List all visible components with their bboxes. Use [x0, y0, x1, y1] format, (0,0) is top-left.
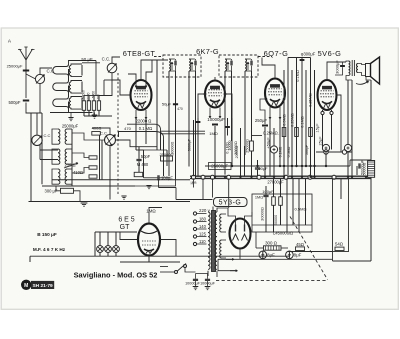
capacitor 90uF: [255, 168, 260, 169]
svg-text:0.1MΩ: 0.1MΩ: [279, 146, 283, 157]
tube V5 grids: [142, 240, 156, 242]
svg-text:180: 180: [199, 217, 207, 222]
svg-text:50 μF: 50 μF: [81, 57, 93, 62]
wire coupling vertical 8: [314, 70, 316, 176]
bus connector sockets: [192, 175, 196, 179]
wire stub y135: [252, 135, 262, 137]
wire 6Q7 pins down: [269, 107, 271, 119]
svg-text:GT: GT: [120, 224, 130, 231]
wire socket 203 down: [202, 178, 204, 199]
svg-text:410Ω: 410Ω: [73, 170, 83, 175]
wire input node: [26, 74, 36, 79]
dashed gang coupling line: [117, 73, 119, 196]
tube V2 6K7-G plate: [211, 86, 220, 89]
svg-text:22000 Ω: 22000 Ω: [136, 119, 152, 124]
svg-text:5Y3-G: 5Y3-G: [219, 200, 242, 207]
wire 6K7 top cap to IF2: [214, 77, 216, 81]
svg-text:C.C.: C.C.: [102, 57, 111, 62]
svg-text:90μF: 90μF: [258, 166, 268, 171]
wire coupling vertical 7: [310, 58, 312, 177]
svg-text:25μF: 25μF: [319, 136, 323, 146]
mains tap 125V: [193, 235, 196, 238]
wire 5Y3 anode top left: [228, 208, 236, 225]
wire osc gang taps: [39, 145, 41, 160]
svg-text:25000μF: 25000μF: [211, 163, 228, 168]
resistor bank R2: [87, 101, 90, 111]
IF2 unit 2 wires: [245, 58, 251, 60]
electrolytic 8uF first: [259, 251, 267, 259]
wire 6TE8 pins down: [135, 110, 137, 119]
capacitor 50uF on AVC feed: [173, 104, 178, 105]
svg-text:8μF: 8μF: [267, 252, 275, 257]
wire 6K7 column down: [197, 118, 199, 176]
svg-text:25000μF: 25000μF: [62, 124, 79, 129]
ground RF bank left: [68, 118, 73, 121]
wire resistor bank bottom rail: [84, 115, 112, 117]
dashed screen lead right of IF2: [258, 56, 272, 58]
svg-text:54Ω: 54Ω: [335, 242, 343, 247]
svg-text:50μF: 50μF: [162, 101, 172, 106]
resistor 0.5M box: [282, 128, 286, 137]
wire bus to 5Y3 label: [212, 178, 214, 197]
capacitor 100uF at x158: [158, 175, 159, 180]
tube V4 5V6-G heater: [324, 103, 331, 108]
wire lamps feed: [94, 232, 96, 256]
wire switch verticals: [99, 135, 101, 180]
ground at y156 small: [121, 196, 126, 199]
wire HT rail from choke: [288, 251, 332, 253]
wire x146 to tube: [145, 119, 147, 144]
6K7 grid side terminals: [204, 93, 207, 96]
resistor 45 ohm: [296, 247, 305, 251]
tube V6 plates: [235, 225, 237, 232]
ground mains left: [195, 281, 197, 286]
wire IF2 verticals down: [224, 71, 226, 175]
osc coil pair 1 leads: [52, 129, 58, 144]
RF transformer 2 primary loop: [53, 83, 66, 91]
6Q7 diode terminals: [265, 98, 268, 101]
wire band switch verticals: [95, 61, 97, 96]
wire socket 193 down: [193, 178, 195, 187]
wire RF bank feed top: [69, 61, 97, 65]
label 5Y3-G outline: [214, 198, 248, 207]
svg-text:30000Ω: 30000Ω: [171, 141, 175, 154]
wire left second vertical: [41, 113, 43, 184]
5V6 cathode pins with sockets: [322, 110, 324, 150]
capacitor 250uF: [262, 125, 268, 126]
wire 6Q7 top cap: [262, 58, 275, 79]
wire osc coils common: [71, 129, 73, 186]
wire left edge long vertical: [30, 113, 32, 202]
tube V4 5V6-G plate: [323, 86, 332, 89]
resistor bank R4: [97, 101, 100, 111]
RF transformer 2 secondary lead: [81, 82, 83, 93]
wire coupling vertical 5: [301, 58, 303, 177]
ground mains right: [207, 281, 209, 286]
wire lamp rail bottom: [99, 252, 101, 256]
svg-text:SH 21-79: SH 21-79: [32, 283, 53, 289]
wire transformer primary leads: [346, 61, 349, 62]
svg-text:500μF: 500μF: [305, 144, 309, 155]
wire 5V6 plate top to output transformer: [327, 62, 346, 80]
osc coil pair 2 leads: [52, 149, 58, 164]
capacitor 100uF filter: [263, 195, 268, 196]
wire coupling vertical 6: [305, 70, 307, 166]
tube V5 cathode: [144, 249, 154, 251]
svg-text:300 Ω: 300 Ω: [265, 240, 278, 245]
wire 5Y3 anode top right: [245, 212, 253, 225]
electrolytic far right: [344, 144, 351, 151]
tube V1 6TE8-GT grids: [135, 90, 148, 92]
junction dots on AVC: [231, 165, 233, 167]
resistor bank R3: [92, 101, 95, 111]
tube V5 target: [141, 231, 157, 234]
electrolytic 8uF second: [286, 251, 294, 259]
wire horizontal y186: [42, 185, 135, 187]
wire trimmer padder top: [92, 128, 110, 135]
power transformer HV secondary: [215, 212, 217, 269]
resistor filter vertical 2: [279, 197, 283, 206]
wire filter bottom rail: [252, 224, 312, 226]
logo emblem circle: [21, 280, 31, 290]
wire trimmer RF bottom: [99, 73, 112, 96]
svg-text:8μF: 8μF: [294, 252, 302, 257]
wire x357 vertical lower: [356, 166, 358, 175]
osc coil pair 3 leads: [52, 169, 58, 184]
svg-text:50000: 50000: [81, 90, 85, 99]
wire under 6TE8 curves to bus: [155, 124, 161, 131]
IF2 unit 1 wires: [225, 58, 231, 60]
IF2 winding 2: [245, 59, 247, 71]
wire det stair v: [175, 188, 177, 200]
svg-text:30000Ω: 30000Ω: [261, 207, 265, 221]
wire double line under tubes 2: [161, 133, 205, 135]
resistor 25000 horizontal box: [161, 156, 173, 161]
wire RF bank inter-row links: [68, 69, 70, 81]
trimmer C.C. oscillator gang: [32, 135, 42, 145]
wire double line under tubes 1: [161, 130, 205, 132]
wire 6E5 top: [149, 208, 162, 224]
dashed chassis bottom: [216, 280, 328, 282]
wire choke leads: [256, 247, 264, 249]
output transformer primary: [349, 61, 350, 76]
wire RF bank feed 2: [82, 62, 100, 64]
IF2 trim capacitor 2: [251, 61, 252, 66]
svg-text:50000: 50000: [274, 215, 278, 225]
wire AVC line: [205, 165, 350, 167]
wire vertical x118 under 6TE8: [118, 132, 120, 138]
svg-text:5000pF: 5000pF: [188, 138, 192, 151]
wire 50pF leads: [138, 147, 140, 159]
wire coupling vertical 4: [296, 58, 298, 167]
dashed screen lead left of IF1: [154, 56, 163, 58]
resistor 54 ohm box: [335, 247, 344, 250]
capacitor 500pF: [23, 100, 29, 101]
wire mains left stub: [160, 266, 168, 268]
svg-text:0.1MΩ: 0.1MΩ: [301, 116, 305, 128]
label 400 ohm osc: [92, 132, 101, 136]
wire osc rows to switch: [72, 153, 89, 158]
mains tap 180V: [193, 220, 196, 223]
tube V6 5Y3-G envelope: [230, 219, 251, 249]
IF transformer 1 shield box: [163, 55, 201, 77]
svg-text:3000μF: 3000μF: [335, 60, 340, 74]
tube V3 6Q7-G plate: [271, 85, 280, 88]
ground RF bank right: [92, 115, 98, 118]
wire under 6TE8 line2: [119, 131, 156, 133]
mains switch: [175, 271, 178, 274]
IF1 winding 1: [169, 59, 171, 71]
wire secondary to speaker: [358, 64, 366, 65]
tube V1 6TE8-GT plate: [137, 86, 146, 89]
wire lamp rail top: [95, 231, 137, 233]
dashed chassis diagonal: [290, 217, 328, 280]
wire 6E5 bottom: [148, 256, 150, 262]
capacitor mains filter left: [193, 279, 198, 280]
resistor 0.1M box: [309, 128, 313, 137]
capacitor mains filter right: [205, 279, 210, 280]
wire heater connector line: [316, 151, 352, 153]
svg-text:10000μF: 10000μF: [207, 117, 225, 122]
trimmer padder: [105, 135, 116, 146]
heater connector socket 1: [324, 150, 328, 154]
svg-text:0.5MΩ: 0.5MΩ: [287, 146, 291, 157]
svg-text:6TE8-GT: 6TE8-GT: [123, 49, 156, 58]
wire LV leads: [222, 213, 227, 215]
RF transformer 2 primary hooks: [66, 81, 69, 94]
wire detector verticals: [160, 131, 162, 150]
junction dots on bus: [214, 176, 216, 178]
wire secondary top to 5Y3: [217, 208, 228, 212]
wire antenna down: [25, 72, 27, 98]
svg-text:0.25MΩ: 0.25MΩ: [291, 113, 295, 127]
mains tap 140V: [193, 227, 196, 230]
wire right edge links: [332, 252, 334, 262]
wire right block inner vertical: [340, 179, 342, 199]
wire right vertical x371 lower: [370, 177, 372, 261]
IF2 trim capacitor 1: [231, 61, 232, 66]
svg-text:125: 125: [199, 232, 207, 237]
tube V3 6Q7-G grids: [269, 88, 282, 90]
wire filter inner verticals: [265, 197, 267, 232]
wire coupling top rail: [288, 57, 311, 59]
capacitor coupling: [300, 60, 305, 61]
wire switch leads: [160, 271, 175, 273]
RF transformer 2 secondary winding: [69, 82, 71, 92]
electrolytic 50uF mid: [270, 146, 277, 153]
capacitor 50pF osc: [136, 159, 141, 160]
speaker field arrow: [356, 81, 369, 84]
wire primary ends: [207, 271, 209, 276]
mains tap 110V: [193, 242, 196, 245]
tube V3 6Q7-G envelope: [265, 79, 285, 108]
svg-text:C.C: C.C: [44, 133, 51, 138]
svg-text:45Ω: 45Ω: [296, 242, 304, 247]
RF transformer 1 primary loop: [53, 67, 66, 75]
svg-text:400Ω: 400Ω: [92, 125, 102, 130]
wire coupling vertical 2: [287, 58, 289, 176]
dial lamp 3: [115, 232, 117, 246]
trimmer C.C. antenna: [35, 74, 44, 83]
svg-text:250μF: 250μF: [255, 118, 268, 123]
wire cap under 6K7: [214, 126, 216, 176]
power transformer LV windings: [220, 214, 222, 232]
wire secondary center tap: [216, 271, 218, 277]
wire mains filter: [195, 274, 197, 279]
switch contact box 3: [89, 175, 97, 178]
svg-text:50pF: 50pF: [141, 154, 151, 159]
tube V3 6Q7-G heater: [272, 101, 279, 106]
electrolytic 25uF right: [322, 144, 329, 151]
svg-text:100μF: 100μF: [262, 189, 274, 194]
antenna: [25, 60, 27, 74]
RF transformer 1 primary hooks: [66, 64, 69, 77]
resistor 300uF box: [61, 188, 74, 193]
tube V4 5V6-G envelope: [318, 80, 337, 110]
wire 6E5 grid left: [120, 232, 138, 240]
osc coil pair 3 left winding: [58, 169, 60, 184]
svg-text:10000: 10000: [86, 92, 90, 101]
svg-text:6 E 5: 6 E 5: [118, 217, 134, 224]
wire heater lead y270.7: [218, 270, 238, 272]
wire right vertical x371 upper: [370, 80, 372, 160]
svg-text:27000μF: 27000μF: [267, 179, 284, 184]
tube V4 5V6-G grids: [321, 90, 334, 92]
svg-text:400: 400: [96, 94, 100, 100]
wire 6TE8 grid left to coils: [112, 80, 131, 95]
RF transformer 3 primary hooks: [66, 97, 69, 110]
capacitor antenna series: [23, 70, 29, 71]
wire taps to primary: [197, 213, 207, 215]
wire 6K7 left grid: [198, 94, 205, 118]
RF transformer 3 secondary winding: [69, 98, 71, 108]
wire horizontal y201 left: [29, 201, 191, 203]
capacitor 3000uF: [340, 66, 345, 67]
wire under 6TE8 line1: [127, 123, 155, 125]
resistor osc bottom box: [134, 172, 143, 176]
resistor filter vertical 1: [272, 197, 276, 206]
resistor 25000 ohm vertical: [250, 141, 254, 151]
svg-text:470: 470: [124, 126, 131, 131]
svg-text:15μF: 15μF: [316, 123, 320, 133]
RF transformer 1 secondary winding: [69, 66, 71, 76]
svg-text:10000: 10000: [228, 141, 232, 151]
wire coupling vertical 3: [291, 70, 293, 176]
svg-text:φ300μF: φ300μF: [301, 52, 316, 57]
wire speaker frame down: [351, 80, 353, 176]
osc coil pair 3 right winding: [65, 169, 67, 184]
svg-text:0.25MΩ: 0.25MΩ: [309, 93, 313, 107]
tube V2 6K7-G cathode: [210, 100, 220, 102]
wire detector links: [143, 150, 145, 178]
IF1 trim capacitor 2: [195, 61, 196, 66]
tube V1 6TE8-GT heater: [138, 103, 145, 108]
6TE8 top entry arrows: [135, 82, 137, 88]
tube V2 6K7-G envelope: [205, 81, 225, 108]
svg-text:C.C.: C.C.: [100, 130, 108, 135]
svg-text:20000Ω: 20000Ω: [235, 145, 239, 158]
output transformer core: [351, 60, 353, 76]
wire padder bottom down: [109, 146, 111, 200]
wire 300uF leads: [56, 186, 61, 191]
svg-text:25000Ω: 25000Ω: [246, 139, 250, 153]
wire det stair h1: [159, 187, 177, 189]
svg-text:B 150 μF: B 150 μF: [37, 232, 57, 237]
output transformer secondary: [357, 64, 359, 73]
ground osc mid: [81, 203, 88, 206]
RF transformer 3 primary loop: [53, 99, 66, 107]
tube V2 6K7-G grids: [209, 89, 222, 91]
wire long bottom line: [30, 255, 290, 257]
svg-text:140: 140: [199, 224, 207, 229]
boxed label 25000 uF: [209, 163, 232, 170]
tube V1 6TE8-GT envelope: [131, 80, 152, 110]
wire 6TE8 grid caps: [128, 74, 136, 82]
svg-text:10000μF: 10000μF: [185, 281, 200, 285]
svg-text:0.1MΩ: 0.1MΩ: [296, 70, 300, 82]
wire 6Q7 left diode down: [260, 99, 266, 124]
svg-text:25000μF: 25000μF: [7, 64, 23, 69]
wire 6K7 right terminal: [225, 94, 232, 118]
speaker cone: [371, 57, 380, 84]
svg-text:230 Ω: 230 Ω: [64, 163, 75, 168]
more junction dots AVC: [283, 165, 285, 167]
tube V5 6E5 envelope: [138, 224, 160, 256]
wire 6K7 pins down: [209, 108, 211, 119]
svg-text:50000μF: 50000μF: [361, 159, 365, 174]
main bus line 1: [190, 175, 371, 177]
capacitor under 6K7: [212, 124, 218, 125]
IF1 trim capacitor 1: [175, 61, 176, 66]
svg-text:1MΩ: 1MΩ: [255, 196, 263, 200]
svg-text:0.25MΩ.: 0.25MΩ.: [263, 131, 279, 136]
svg-text:500pF: 500pF: [8, 100, 20, 105]
tube V5 heater: [146, 251, 152, 254]
wire 6TE8 top to IF box A: [141, 60, 168, 80]
wire 6E5 right link: [161, 240, 177, 257]
capacitor 6K7 cathode: [225, 127, 230, 128]
svg-text:M.F. 4 6 7 K Hz: M.F. 4 6 7 K Hz: [33, 247, 66, 252]
tube V3 6Q7-G cathode: [270, 99, 280, 101]
svg-text:M 480: M 480: [137, 162, 149, 167]
wire padder to coils: [72, 133, 105, 140]
wire mid vertical x104: [103, 80, 105, 96]
svg-text:1MΩ: 1MΩ: [146, 209, 156, 214]
svg-text:5000: 5000: [91, 91, 95, 98]
wire left ground rail: [52, 179, 190, 181]
wire AVC to choke: [350, 159, 371, 161]
power transformer primary winding: [208, 212, 210, 269]
wire RF bank bottom rail: [50, 112, 93, 114]
wire right block rectangle: [333, 179, 349, 252]
svg-text:110: 110: [199, 239, 206, 244]
osc coil pair 1 right winding: [65, 129, 67, 144]
wire 5Y3 cathode out: [239, 249, 241, 260]
heater connector socket 2: [342, 150, 346, 154]
wire trimmer padder right: [116, 140, 158, 147]
IF2 winding 1: [225, 59, 227, 71]
svg-text:L45000ωΩ: L45000ωΩ: [273, 231, 293, 236]
speaker field choke winding: [368, 161, 375, 178]
IF1 unit 1 wires: [169, 58, 175, 60]
resistor 0.25M box: [295, 128, 299, 137]
tube V6 filaments: [233, 234, 239, 241]
dial lamp 2: [107, 232, 109, 246]
IF1 winding 2: [189, 59, 191, 71]
wire left of IF1 vertical: [156, 60, 158, 150]
wire det stair h2: [176, 199, 213, 201]
svg-text:470: 470: [177, 107, 183, 111]
